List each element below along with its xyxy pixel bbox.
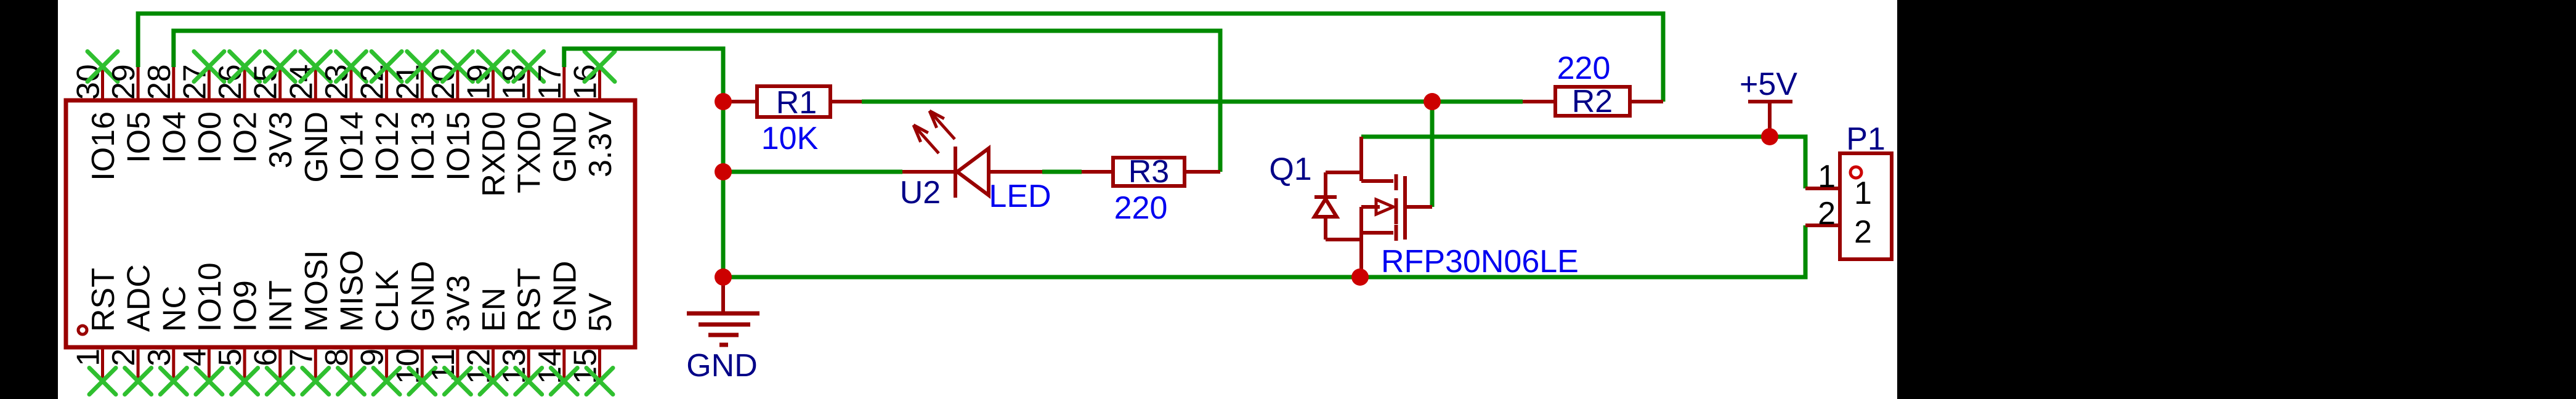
svg-text:IO15: IO15 (440, 111, 476, 181)
svg-text:2: 2 (1854, 214, 1872, 250)
svg-text:+5V: +5V (1740, 66, 1797, 102)
svg-text:GND: GND (405, 260, 441, 332)
svg-text:R3: R3 (1128, 154, 1169, 190)
svg-text:5: 5 (213, 349, 248, 366)
svg-text:IO2: IO2 (228, 111, 264, 163)
svg-text:MISO: MISO (334, 250, 370, 332)
svg-text:RST: RST (512, 268, 548, 332)
svg-text:GND: GND (547, 260, 583, 332)
svg-text:3V3: 3V3 (440, 275, 476, 332)
svg-text:EN: EN (476, 288, 512, 332)
svg-text:8: 8 (319, 349, 355, 366)
svg-text:INT: INT (263, 280, 299, 332)
svg-text:3: 3 (142, 349, 177, 366)
svg-text:9: 9 (355, 349, 391, 366)
svg-text:7: 7 (283, 349, 319, 366)
svg-text:17: 17 (532, 64, 568, 100)
svg-text:IO13: IO13 (405, 111, 441, 181)
svg-text:IO16: IO16 (86, 111, 121, 181)
svg-text:1: 1 (1818, 159, 1836, 195)
svg-text:10K: 10K (761, 121, 819, 156)
svg-text:IO0: IO0 (192, 111, 228, 163)
svg-text:IO10: IO10 (192, 262, 228, 332)
svg-text:RXD0: RXD0 (476, 111, 512, 197)
svg-text:GND: GND (547, 111, 583, 183)
svg-text:3.3V: 3.3V (583, 111, 618, 177)
svg-text:RST: RST (86, 268, 121, 332)
svg-text:2: 2 (106, 349, 142, 366)
svg-text:IO5: IO5 (121, 111, 157, 163)
svg-text:2: 2 (1818, 196, 1836, 232)
svg-text:R2: R2 (1572, 84, 1613, 119)
svg-text:P1: P1 (1846, 121, 1885, 157)
svg-text:IO4: IO4 (156, 111, 192, 163)
svg-text:U2: U2 (900, 175, 941, 211)
svg-text:GND: GND (686, 348, 758, 384)
svg-text:LED: LED (989, 179, 1051, 214)
svg-text:IO12: IO12 (370, 111, 405, 181)
svg-text:ADC: ADC (121, 264, 157, 332)
svg-text:RFP30N06LE: RFP30N06LE (1381, 244, 1579, 280)
svg-text:28: 28 (142, 64, 177, 100)
svg-text:NC: NC (156, 286, 192, 332)
svg-text:4: 4 (177, 349, 213, 366)
svg-text:Q1: Q1 (1269, 151, 1311, 187)
svg-text:TXD0: TXD0 (512, 111, 548, 193)
svg-text:5V: 5V (583, 292, 618, 332)
svg-text:R1: R1 (776, 85, 817, 121)
svg-text:IO9: IO9 (228, 280, 264, 332)
svg-text:3V3: 3V3 (263, 111, 299, 169)
svg-text:CLK: CLK (370, 270, 405, 332)
svg-text:220: 220 (1557, 50, 1611, 86)
svg-text:29: 29 (106, 64, 142, 100)
svg-text:GND: GND (299, 111, 334, 183)
svg-text:IO14: IO14 (334, 111, 370, 181)
svg-text:220: 220 (1114, 190, 1168, 226)
svg-text:1: 1 (1854, 175, 1872, 211)
svg-text:6: 6 (248, 349, 284, 366)
svg-text:1: 1 (71, 349, 107, 366)
svg-text:MOSI: MOSI (299, 250, 334, 332)
